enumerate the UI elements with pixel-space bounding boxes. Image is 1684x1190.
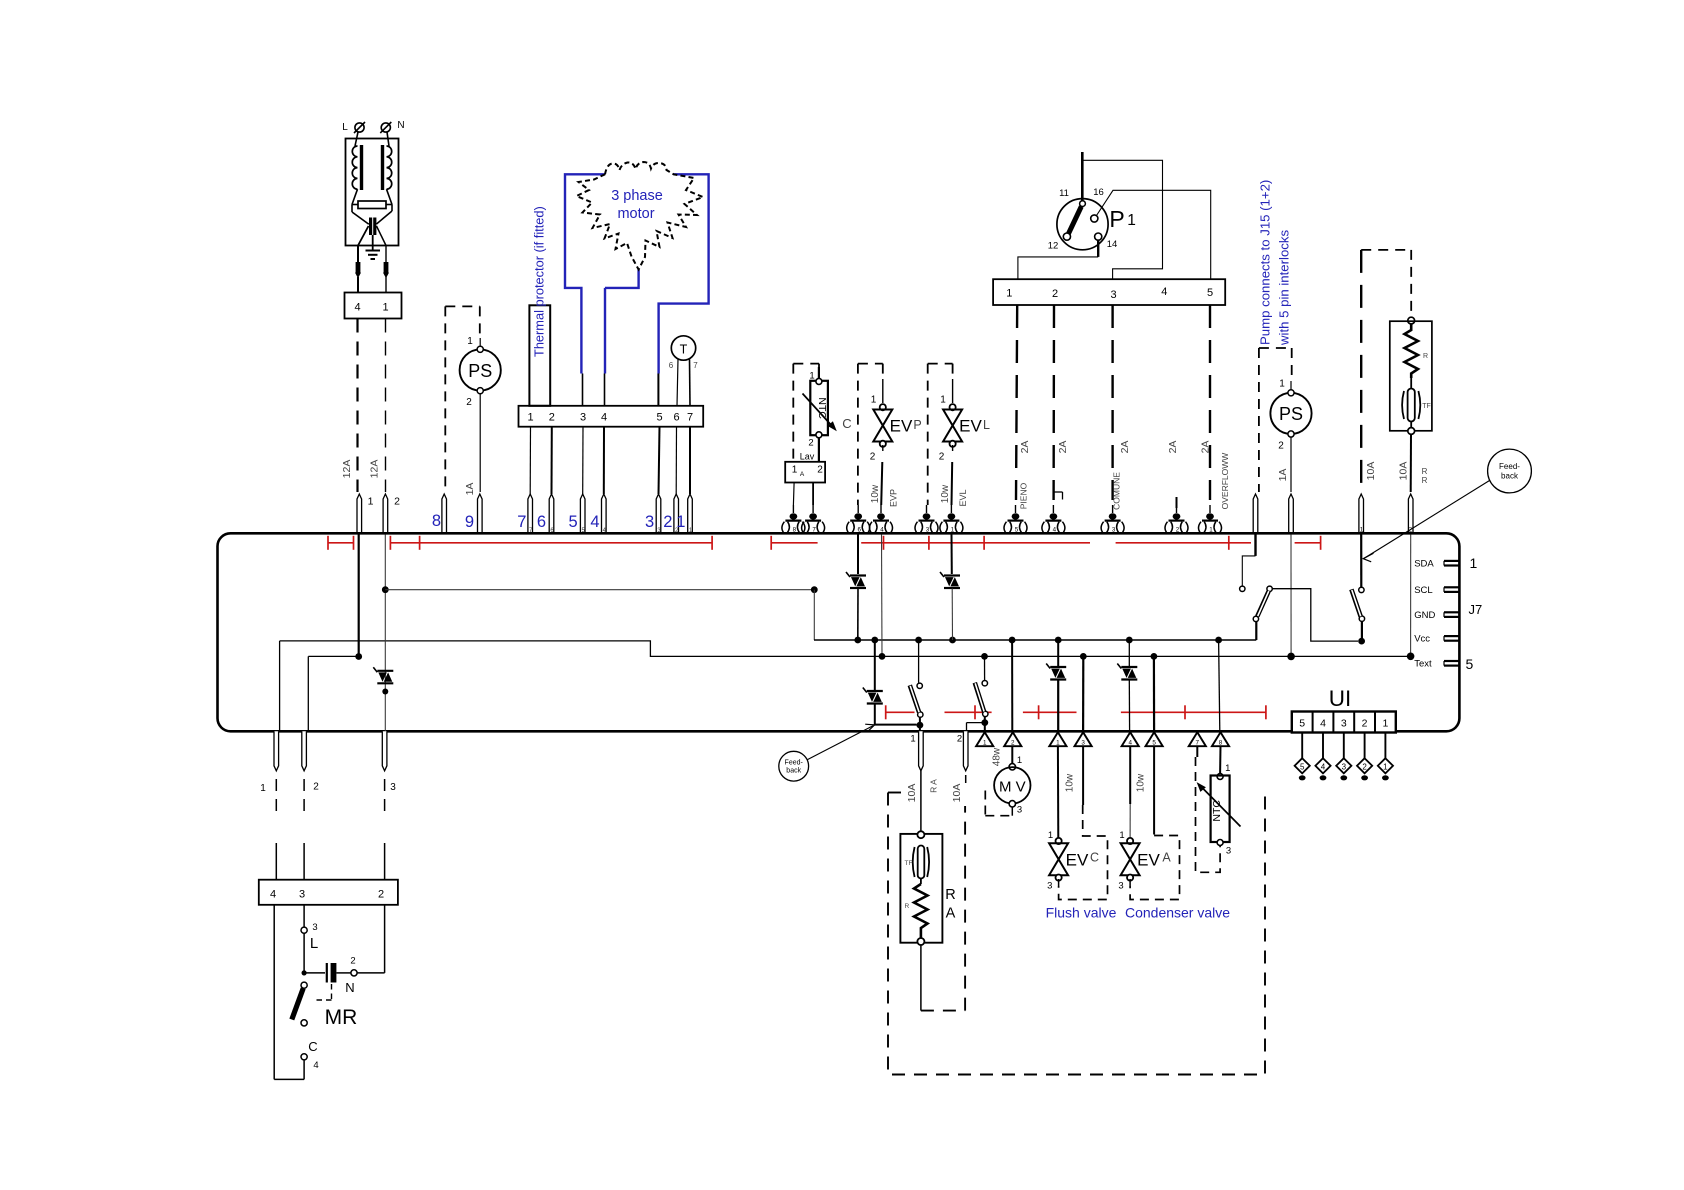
node <box>1407 653 1415 661</box>
terminal 10A-1 <box>1359 494 1364 535</box>
triac Q4 <box>867 690 883 692</box>
capacitor MR coil <box>304 972 325 974</box>
svg-text:back: back <box>1501 472 1519 481</box>
svg-text:5: 5 <box>1300 762 1305 771</box>
svg-text:10A: 10A <box>1398 462 1410 481</box>
terminal 2 <box>383 494 388 535</box>
pin 1 <box>976 732 993 746</box>
svg-text:2: 2 <box>957 734 962 745</box>
terminal 4 <box>880 505 882 513</box>
Lav wires to terminals <box>792 483 795 506</box>
svg-text:T: T <box>680 343 688 357</box>
node <box>382 689 388 695</box>
wire 10w EVL <box>952 445 954 451</box>
node <box>917 722 924 729</box>
svg-text:2: 2 <box>466 397 472 408</box>
svg-text:6: 6 <box>857 526 861 533</box>
svg-text:PS: PS <box>1279 404 1303 424</box>
svg-text:motor: motor <box>617 206 654 222</box>
wire pin16 <box>1097 190 1211 279</box>
svg-text:8: 8 <box>793 526 797 533</box>
wire contact to SW3 <box>1272 589 1358 641</box>
svg-text:1: 1 <box>676 513 685 531</box>
fuse F2 <box>384 262 389 273</box>
wire <box>358 226 369 246</box>
svg-text:3: 3 <box>1017 805 1022 816</box>
svg-text:1: 1 <box>368 496 374 508</box>
dashed wires to J-mains <box>275 779 277 818</box>
wire EVC feed + triac Q5 <box>1057 640 1059 666</box>
svg-text:2: 2 <box>549 412 555 424</box>
svg-text:2A: 2A <box>1200 441 1212 454</box>
svg-text:2: 2 <box>939 452 945 463</box>
svg-text:N: N <box>345 980 354 995</box>
svg-text:2A: 2A <box>1167 441 1179 454</box>
T wires <box>677 359 678 406</box>
node <box>949 637 956 644</box>
svg-text:1: 1 <box>1470 555 1478 571</box>
svg-text:10A: 10A <box>1365 462 1377 481</box>
svg-text:2: 2 <box>1176 526 1180 533</box>
feedback balloon top <box>1488 449 1532 493</box>
svg-text:L: L <box>310 935 318 952</box>
pin 8 <box>1212 732 1229 746</box>
node <box>981 653 988 660</box>
node <box>811 586 818 593</box>
svg-text:5: 5 <box>1466 656 1474 672</box>
svg-text:2: 2 <box>663 513 672 531</box>
wire 12A left (dashed) <box>356 319 358 493</box>
fuse F1 <box>356 262 361 273</box>
thermistor T <box>671 336 695 360</box>
triac Q3 <box>944 574 960 576</box>
svg-text:1: 1 <box>382 302 388 314</box>
motor star sketch <box>577 162 704 270</box>
svg-text:1A: 1A <box>464 483 476 496</box>
svg-text:2: 2 <box>870 452 876 463</box>
svg-text:7: 7 <box>693 361 698 370</box>
svg-text:EVP: EVP <box>889 489 899 507</box>
svg-text:EV: EV <box>1137 851 1160 870</box>
node <box>1009 637 1016 644</box>
svg-text:3: 3 <box>926 526 930 533</box>
svg-text:3: 3 <box>1226 846 1231 857</box>
UI connector strip <box>1292 712 1396 733</box>
svg-text:3 phase: 3 phase <box>611 188 663 204</box>
svg-text:6: 6 <box>537 513 546 531</box>
wire pin2 stub <box>308 655 358 657</box>
terminal 1 bottom <box>274 731 279 771</box>
wire 10w EVP <box>882 445 884 451</box>
wire grommet4(EVP) down <box>881 535 884 657</box>
svg-text:R: R <box>905 903 910 910</box>
svg-text:12A: 12A <box>369 460 381 479</box>
svg-text:1: 1 <box>1127 212 1136 229</box>
svg-text:C: C <box>308 1039 317 1054</box>
svg-text:J7: J7 <box>1469 602 1483 617</box>
terminal 8 <box>792 505 794 513</box>
heater resistor R + thermal fuse TF <box>1408 317 1415 324</box>
J7 pins <box>1444 560 1459 562</box>
svg-text:Text: Text <box>1414 659 1432 670</box>
wire EVC3 <box>1082 656 1084 731</box>
UI pin 2 <box>1364 733 1366 759</box>
triac Q2 <box>850 574 866 576</box>
svg-text:2: 2 <box>1011 740 1015 747</box>
svg-text:1: 1 <box>792 465 798 476</box>
svg-text:TF: TF <box>905 860 913 867</box>
svg-text:4: 4 <box>1053 526 1057 533</box>
svg-text:10w: 10w <box>1065 773 1076 792</box>
EVL dashed enclosure <box>928 363 953 365</box>
heater R A <box>900 834 942 943</box>
terminal 5b <box>1015 505 1017 513</box>
svg-text:R A: R A <box>929 779 939 793</box>
svg-text:5: 5 <box>1207 287 1213 299</box>
svg-text:5: 5 <box>656 412 662 424</box>
wire bus L (step) <box>280 641 1411 657</box>
wire 12A right (dashed) <box>385 319 387 493</box>
svg-text:3: 3 <box>1341 718 1347 730</box>
svg-text:3: 3 <box>299 889 305 901</box>
node <box>1055 637 1062 644</box>
wire 12A-1 into board <box>358 535 360 657</box>
node <box>1358 638 1365 645</box>
svg-text:with 5 pin interlocks: with 5 pin interlocks <box>1277 230 1292 346</box>
svg-text:2: 2 <box>808 438 813 449</box>
wire NTC feed <box>1219 640 1220 731</box>
node <box>854 637 861 644</box>
terminal PS2 <box>1289 494 1294 535</box>
svg-text:P: P <box>913 418 921 432</box>
connector J4 (4 1) <box>345 293 402 319</box>
svg-text:1: 1 <box>940 395 946 406</box>
node <box>355 653 362 660</box>
svg-text:5: 5 <box>1152 740 1156 747</box>
svg-text:3: 3 <box>312 922 317 933</box>
NTC right feed <box>1219 746 1221 773</box>
svg-text:4: 4 <box>1320 718 1326 730</box>
dashed link to MR <box>316 984 332 1000</box>
motor leg wires <box>582 374 584 406</box>
EVC return dashed loop <box>1082 746 1084 805</box>
terminal 8 <box>442 494 447 535</box>
svg-text:10A: 10A <box>951 784 963 803</box>
wire down to bus R <box>813 590 815 640</box>
dashed wire C <box>857 364 859 505</box>
svg-text:4: 4 <box>1128 740 1132 747</box>
terminal 1A <box>1253 494 1258 535</box>
EVC feed wire <box>1057 746 1059 840</box>
node <box>1080 653 1087 660</box>
terminal 4b <box>1052 505 1054 513</box>
wire 4 down <box>273 905 275 1080</box>
dashed wire pin2 <box>1052 305 1055 500</box>
svg-text:2A: 2A <box>1119 441 1131 454</box>
red marks top <box>328 542 354 544</box>
wire RA return (dashed) <box>920 945 922 1010</box>
svg-text:3: 3 <box>645 513 654 531</box>
svg-text:R: R <box>1422 476 1428 485</box>
svg-text:12: 12 <box>1048 241 1059 252</box>
pin 2 <box>1004 732 1021 746</box>
svg-text:EV: EV <box>1066 851 1089 870</box>
svg-text:4: 4 <box>354 302 360 314</box>
wire bottom link <box>274 1078 304 1080</box>
svg-text:8: 8 <box>1219 740 1223 747</box>
red marks bottom <box>886 711 915 713</box>
svg-text:7: 7 <box>1196 740 1200 747</box>
svg-text:Condenser valve: Condenser valve <box>1125 905 1230 921</box>
node <box>915 637 922 644</box>
svg-text:9: 9 <box>465 513 474 531</box>
svg-text:3: 3 <box>580 412 586 424</box>
accessories dashed box <box>888 792 901 794</box>
svg-text:1: 1 <box>951 526 955 533</box>
svg-text:N: N <box>397 120 404 131</box>
node <box>302 970 307 975</box>
svg-text:7: 7 <box>812 526 816 533</box>
terminal RR-2 <box>1408 494 1413 535</box>
svg-text:A: A <box>800 471 805 478</box>
svg-text:1: 1 <box>1006 288 1012 300</box>
svg-text:10A: 10A <box>906 784 918 803</box>
pin 1 <box>1049 732 1066 746</box>
svg-text:2A: 2A <box>1057 441 1069 454</box>
svg-text:10w: 10w <box>1136 773 1147 792</box>
svg-text:1: 1 <box>1119 830 1124 841</box>
svg-text:7: 7 <box>687 412 693 424</box>
svg-text:R: R <box>1423 353 1428 360</box>
svg-text:MR: MR <box>325 1006 358 1029</box>
wire bus R <box>814 639 1256 641</box>
UI pin 5 <box>1301 733 1303 759</box>
wire 3 down to L <box>303 905 305 927</box>
svg-text:Pump connects to J15 (1+2): Pump connects to J15 (1+2) <box>1258 180 1273 345</box>
svg-text:R: R <box>945 887 955 903</box>
wire RR into board <box>1410 535 1412 657</box>
UI pin 4 <box>1322 733 1324 759</box>
svg-text:2: 2 <box>1362 762 1367 771</box>
node <box>382 586 389 593</box>
svg-text:P: P <box>1109 206 1124 232</box>
node <box>879 653 886 660</box>
terminal 7 <box>812 505 814 513</box>
main control board <box>218 533 1460 731</box>
feedback arrow bottom <box>807 726 873 760</box>
svg-text:3: 3 <box>1081 740 1085 747</box>
svg-text:1: 1 <box>871 395 877 406</box>
svg-text:A: A <box>1162 851 1171 865</box>
EVA return dashed loop <box>1153 746 1155 834</box>
svg-text:2: 2 <box>1052 288 1058 300</box>
switch SW1 <box>918 640 920 683</box>
svg-text:Flush valve: Flush valve <box>1046 905 1117 921</box>
svg-text:C: C <box>1090 851 1099 865</box>
svg-text:4: 4 <box>601 412 607 424</box>
wire EVA feed + triac Q6 <box>1128 640 1130 666</box>
svg-text:7: 7 <box>517 513 526 531</box>
svg-text:COMUNE: COMUNE <box>1112 472 1122 510</box>
wire <box>882 379 884 403</box>
triac Q1 <box>377 670 393 672</box>
svg-text:5: 5 <box>569 513 578 531</box>
svg-text:1: 1 <box>260 783 266 794</box>
svg-text:2: 2 <box>817 465 823 476</box>
connector J-mains (4 3 2) <box>259 880 398 905</box>
node <box>1151 653 1158 660</box>
pin 4 <box>1122 732 1139 746</box>
svg-text:10w: 10w <box>870 484 881 503</box>
wire 1A right <box>1290 437 1292 492</box>
motor ventilation MV <box>1011 746 1013 763</box>
svg-text:4: 4 <box>1321 762 1326 771</box>
svg-text:UI: UI <box>1329 686 1352 711</box>
PS right dashed enclosure <box>1259 347 1292 349</box>
relay switch MR <box>301 982 307 988</box>
svg-text:1: 1 <box>983 740 987 747</box>
dashed wire pin1 PIENO <box>1016 305 1017 500</box>
svg-text:PS: PS <box>468 361 492 381</box>
wire 12A-2 into board <box>384 535 386 732</box>
node <box>981 719 988 726</box>
relay contact SW2 <box>1254 535 1256 556</box>
svg-text:3: 3 <box>1118 881 1123 892</box>
svg-text:Thermal protector (if fitted): Thermal protector (if fitted) <box>532 206 547 357</box>
svg-text:3: 3 <box>1342 762 1347 771</box>
motor connector strip 1-7 <box>519 406 704 427</box>
svg-text:2: 2 <box>1362 718 1368 730</box>
terminal 1b <box>1209 505 1211 513</box>
svg-text:4: 4 <box>590 513 599 531</box>
svg-text:2: 2 <box>313 782 319 793</box>
UI pin 1 <box>1384 733 1386 759</box>
svg-text:2: 2 <box>394 496 400 508</box>
NTC right arrow <box>1201 787 1241 827</box>
wire <box>352 189 358 204</box>
pump P1 <box>1081 152 1084 201</box>
wire pin1 down <box>279 641 281 731</box>
bus R to relay pivot <box>1255 622 1257 641</box>
node <box>1126 637 1133 644</box>
svg-text:L: L <box>342 122 348 133</box>
wire grommet6 down <box>857 535 859 575</box>
svg-text:1: 1 <box>1017 755 1022 766</box>
NTC return dashed <box>1196 746 1198 757</box>
terminal 1 <box>357 494 362 535</box>
terminal R A 2 <box>963 731 968 771</box>
wire grommet1(EVL) down <box>951 535 953 575</box>
svg-text:SDA: SDA <box>1414 558 1434 569</box>
svg-text:6: 6 <box>673 412 679 424</box>
svg-text:EVL: EVL <box>958 489 968 506</box>
svg-text:EV: EV <box>890 417 913 436</box>
svg-text:1: 1 <box>910 734 915 745</box>
svg-text:4: 4 <box>1161 286 1167 298</box>
terminal 3 bottom <box>382 731 387 771</box>
terminal R A 1 <box>919 731 924 771</box>
svg-text:3: 3 <box>1112 526 1116 533</box>
terminal 2 bottom <box>302 731 307 771</box>
ground <box>372 235 374 251</box>
switch SW3 <box>1360 535 1362 588</box>
svg-text:OVERFLOWW: OVERFLOWW <box>1220 453 1230 510</box>
node <box>871 637 878 644</box>
wire pin14 <box>1097 240 1099 257</box>
svg-text:6: 6 <box>669 361 674 370</box>
svg-text:PIENO: PIENO <box>1019 482 1029 509</box>
svg-text:M V: M V <box>999 779 1026 796</box>
svg-text:48w: 48w <box>992 747 1003 766</box>
svg-text:A: A <box>946 906 956 922</box>
dashed wire pin5 OVERFLOW <box>1209 305 1211 500</box>
svg-text:1: 1 <box>1056 740 1060 747</box>
svg-text:GND: GND <box>1414 610 1435 621</box>
svg-text:1A: 1A <box>1277 469 1289 482</box>
svg-text:R: R <box>1422 467 1428 476</box>
NTC arrow <box>803 394 833 427</box>
svg-text:back: back <box>786 768 801 775</box>
switch SW4 (lower) <box>984 656 986 680</box>
svg-text:11: 11 <box>1059 188 1069 199</box>
UI pin 3 <box>1343 733 1345 759</box>
svg-text:2: 2 <box>378 889 384 901</box>
pump connector strip 1-5 <box>993 279 1225 305</box>
svg-text:EV: EV <box>959 417 982 436</box>
pin 7 <box>1189 732 1206 746</box>
svg-text:2: 2 <box>350 956 355 967</box>
svg-text:SCL: SCL <box>1414 585 1432 596</box>
wire EVA5 <box>1153 656 1155 731</box>
svg-text:2A: 2A <box>1019 441 1031 454</box>
wire PS2 into board <box>1290 535 1292 657</box>
svg-text:3: 3 <box>1111 289 1117 301</box>
svg-text:1: 1 <box>1382 718 1388 730</box>
thermal protector box <box>529 305 550 406</box>
feedback arrow top <box>1364 481 1490 559</box>
terminal 9 <box>478 494 483 535</box>
pin 3 <box>1075 732 1092 746</box>
wire <box>952 379 954 403</box>
svg-text:1: 1 <box>1225 763 1230 774</box>
filter coil left <box>352 146 357 189</box>
svg-text:L: L <box>983 418 990 432</box>
svg-text:1: 1 <box>467 336 473 347</box>
wire triac branch <box>874 640 876 690</box>
svg-text:1: 1 <box>1383 762 1388 771</box>
MV return dashes <box>1011 807 1013 816</box>
svg-text:Feed-: Feed- <box>785 760 804 767</box>
wire 1A <box>479 394 481 492</box>
svg-text:4: 4 <box>270 889 276 901</box>
svg-text:4: 4 <box>880 526 884 533</box>
node <box>1287 653 1295 661</box>
pin 5 <box>1146 732 1163 746</box>
feedback balloon bottom <box>779 751 809 781</box>
svg-text:5: 5 <box>1299 718 1305 730</box>
svg-text:1: 1 <box>1279 379 1285 390</box>
wire 10A R R <box>1410 434 1412 492</box>
dashed wire pin3 COMUNE <box>1111 305 1113 500</box>
PS dashed enclosure <box>445 305 480 307</box>
EVP dashed corner <box>858 363 883 365</box>
terminal 6 <box>857 505 859 513</box>
wire cross link <box>385 589 814 591</box>
svg-text:14: 14 <box>1107 239 1118 250</box>
svg-text:Feed-: Feed- <box>1499 462 1520 471</box>
terminal 1 <box>950 505 952 513</box>
svg-text:3: 3 <box>1047 881 1052 892</box>
